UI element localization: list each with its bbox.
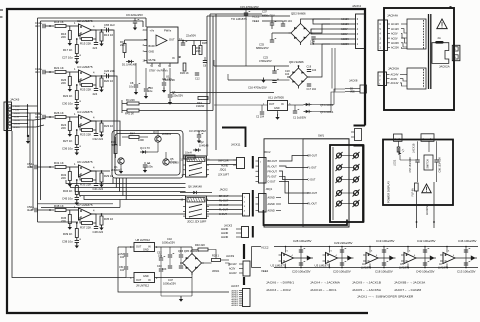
svg-text:IN: IN: [281, 103, 284, 106]
decoupling capacitor C40 100u/25V: [424, 258, 426, 268]
wire input to R14 1K: [45, 25, 54, 27]
svg-text:IN: IN: [148, 279, 151, 282]
wire U1 output: [178, 40, 207, 42]
svg-text:FL-OUT: FL-OUT: [308, 167, 318, 170]
svg-text:R1B: R1B: [202, 42, 207, 45]
svg-text:C47: C47: [168, 278, 173, 282]
wire row5 output to relay JDC2: [110, 213, 186, 215]
vertical bus from power section: [206, 16, 208, 156]
capacitor C34 104: [311, 36, 315, 38]
ground below R36 22K: [69, 224, 71, 227]
IC U1 TDA7296 body: [147, 27, 178, 63]
svg-text:C20 100u/25V: C20 100u/25V: [292, 270, 311, 274]
svg-text:C65 3u3: C65 3u3: [104, 23, 115, 27]
svg-text:R23 10: R23 10: [104, 124, 113, 128]
svg-text:VCC2: VCC2: [252, 15, 260, 19]
svg-text:U4 LM1875: U4 LM1875: [77, 110, 93, 114]
wire jack ground down-left: [12, 131, 126, 278]
relay JDQ1 JZX-18FF: [186, 156, 207, 177]
wires R4 R41 to bus: [139, 103, 210, 105]
svg-text:D1 1N4148: D1 1N4148: [122, 63, 136, 67]
svg-text:SL-IN: SL-IN: [14, 117, 20, 119]
capacitor C45 10u: [76, 195, 78, 198]
wire JACK4A row 6: [388, 47, 391, 49]
svg-text:AC220V: AC220V: [426, 205, 429, 215]
svg-text:C27 10u: C27 10u: [62, 56, 73, 60]
svg-text:J9 LN7912: J9 LN7912: [136, 284, 150, 288]
svg-text:C42 100u/25V: C42 100u/25V: [417, 239, 436, 243]
svg-text:C-OUT: C-OUT: [308, 179, 316, 182]
output resistor R23 10 to ground: [101, 121, 103, 123]
decoupling capacitor C42 100u/25V: [424, 247, 426, 259]
connector JACK2A: [452, 45, 460, 60]
capacitor C12: [195, 72, 199, 74]
svg-text:JR301: JR301: [212, 270, 220, 273]
decoupling capacitor C20 100u25V: [341, 258, 343, 268]
wire JACK4A row 3: [388, 32, 391, 34]
wire input to R21 1K: [45, 71, 54, 73]
buffer op-amp U4 LM1875: [366, 253, 378, 264]
wire second rail top horizontal: [41, 20, 144, 22]
decoupling capacitor C19 100u/25V: [383, 247, 385, 259]
mute block nested shield outline inner: [115, 134, 180, 176]
wire R26 1K to op-amp: [66, 116, 78, 118]
op-amp stage U2 LM1875 input coupling capacitor C61 3u3: [42, 24, 44, 28]
buffer op-amp U2 LM1875: [282, 253, 294, 264]
svg-text:R34 1K: R34 1K: [63, 189, 72, 193]
svg-text:OUT: OUT: [136, 279, 142, 282]
capacitor C23 body: [272, 70, 276, 72]
svg-text:AC24V: AC24V: [229, 272, 237, 275]
JACK6 pin 6 wire: [12, 123, 28, 125]
svg-text:AGND: AGND: [14, 126, 21, 129]
input marks of U4 LM1875: [363, 254, 366, 256]
svg-text:OUT: OUT: [169, 38, 175, 42]
wire VCC2 rail: [262, 15, 290, 17]
svg-text:22K: 22K: [120, 43, 125, 47]
signal wire and arrow after U5 LM1875: [416, 257, 436, 259]
left margin tick marks: [0, 9, 3, 11]
op-amp stage U3 LM1875 input coupling capacitor C62 3u3: [42, 70, 44, 74]
wire bundle left extensions: [66, 180, 113, 184]
capacitor C30 10u: [76, 100, 78, 103]
svg-text:U2 LM1875: U2 LM1875: [271, 264, 286, 268]
signal wire and arrow after U3 LM1875: [338, 257, 354, 259]
svg-text:2N5501: 2N5501: [162, 132, 172, 136]
input marks of U7 LM1875: [440, 254, 443, 256]
svg-text:FR-OUT: FR-OUT: [268, 170, 278, 173]
wire jack bus down to stage 5 input: [31, 120, 33, 210]
svg-text:C17 104: C17 104: [307, 88, 317, 91]
svg-text:JACK10←→JDC1: JACK10←→JDC1: [310, 288, 337, 292]
connector AGND jack right: [259, 194, 267, 213]
svg-text:JACK3←→JDC2: JACK3←→JDC2: [266, 288, 291, 292]
connector JACK3 body: [242, 227, 249, 238]
board edge bar segments mid: [252, 156, 254, 169]
svg-text:220u/25V: 220u/25V: [172, 94, 183, 98]
svg-text:Q4 3.7V: Q4 3.7V: [140, 146, 150, 150]
svg-text:TO LM1875: TO LM1875: [231, 17, 247, 21]
svg-text:R31 1K: R31 1K: [54, 161, 64, 165]
signal wire and arrow after U2 LM1875: [294, 257, 314, 259]
svg-text:JACK2A: JACK2A: [439, 64, 450, 68]
svg-text:R22 1K: R22 1K: [63, 94, 72, 98]
capacitor C17 104: [307, 83, 311, 85]
wire JACK4A row 1: [388, 23, 391, 25]
input marks of U3 LM1875: [323, 254, 326, 256]
svg-text:JACK4A: JACK4A: [387, 14, 398, 18]
svg-text:JACK9←→JACK1B: JACK9←→JACK1B: [352, 281, 381, 285]
svg-text:AGND: AGND: [268, 210, 275, 213]
output wire of U7 LM1875: [92, 213, 111, 215]
output resistor R20 10 to ground: [101, 76, 103, 78]
svg-text:VCC2: VCC2: [261, 245, 269, 249]
capacitor C32 224: [95, 130, 97, 133]
svg-text:IN: IN: [148, 246, 151, 249]
svg-text:R41 1K: R41 1K: [125, 112, 134, 116]
svg-text:10mH: 10mH: [185, 152, 192, 155]
svg-text:R4 22K: R4 22K: [126, 98, 135, 102]
output wire of U4 LM1875: [92, 120, 111, 122]
output resistor R29 10 to ground: [101, 171, 103, 173]
svg-text:104: 104: [120, 269, 125, 272]
wires jack column to speaker switch: [279, 156, 308, 162]
svg-text:AC0V: AC0V: [391, 37, 398, 40]
svg-text:BR-OUT: BR-OUT: [308, 192, 318, 195]
transformer secondary winding lower: [407, 68, 426, 89]
svg-text:C30 10u: C30 10u: [62, 102, 73, 106]
output capacitor C26 22K: [106, 74, 108, 78]
resistor R22 1K to ground: [76, 85, 78, 91]
input marks of U2 LM1875: [279, 254, 282, 256]
op-amp U7 LM1875: [79, 208, 92, 220]
svg-text:22u/50V: 22u/50V: [186, 34, 196, 38]
resistor R26 22K to ground: [68, 77, 71, 86]
resistor R31 1K: [55, 166, 66, 169]
wire input to R26 1K: [45, 116, 54, 118]
svg-text:22K: 22K: [196, 49, 201, 53]
svg-text:1902W: 1902W: [196, 104, 205, 108]
svg-text:1N4148: 1N4148: [199, 144, 209, 148]
transistor Q1 2N5401: [118, 158, 124, 164]
diode Q9 1N4004: [306, 110, 309, 113]
svg-text:R37 22K: R37 22K: [80, 226, 91, 230]
svg-text:C46 100u/25V: C46 100u/25V: [458, 239, 477, 243]
JACK6 pin 7 wire: [12, 126, 28, 128]
wire rail into TDA7294 +Vs: [145, 18, 147, 27]
connector in border notch: [355, 129, 362, 141]
connector JACK4A: [378, 20, 388, 51]
speaker terminals right column: [354, 153, 359, 158]
svg-text:C-2380: C-2380: [170, 161, 179, 165]
wire supplies of U2 LM1875: [285, 247, 287, 253]
svg-text:CE-IN: CE-IN: [14, 120, 20, 122]
relay JDC2 JZX-18FF: [186, 196, 207, 219]
resistor R43 1902W: [198, 97, 208, 100]
capacitor C2 104: [260, 111, 264, 113]
svg-text:R20 10: R20 10: [104, 79, 113, 83]
svg-text:JACK9B←→JACK3A: JACK9B←→JACK3A: [394, 281, 426, 285]
wire AC row 1 to JACK4: [330, 18, 356, 20]
mute block nested shield outline outer: [112, 131, 183, 179]
fuse FUF 6A: [415, 183, 419, 191]
capacitor C7 220u/25V: [168, 94, 172, 96]
svg-text:U3 LM1875: U3 LM1875: [77, 65, 93, 69]
svg-text:FR-OUT: FR-OUT: [219, 204, 229, 207]
ground below R16 22K: [69, 40, 71, 43]
decoupling capacitor C29 220u/25V: [341, 247, 343, 259]
thick board edge bar: [243, 244, 245, 259]
ground below C30 10u: [76, 105, 78, 107]
svg-text:C3 470u/35M: C3 470u/35M: [189, 129, 206, 133]
wire supplies of U5 LM1875: [407, 247, 409, 253]
wire jack bus down to stage 4 input: [30, 113, 33, 167]
svg-text:C15 4700u/25V: C15 4700u/25V: [240, 5, 259, 9]
svg-text:JACK8: JACK8: [349, 79, 358, 83]
feedback resistor R15 22K: [82, 38, 93, 41]
svg-text:AC0V: AC0V: [341, 28, 348, 31]
svg-text:C19 100u/25V: C19 100u/25V: [376, 239, 395, 243]
svg-text:POWER DISPLAY: POWER DISPLAY: [387, 181, 391, 203]
svg-text:OUT: OUT: [269, 103, 275, 106]
resistor R34 1K to ground: [76, 180, 78, 186]
transformer primary winding loop: [432, 43, 449, 64]
svg-text:C2 104: C2 104: [256, 116, 265, 119]
svg-text:R39 1K: R39 1K: [63, 232, 72, 236]
svg-text:GW-CUR: GW-CUR: [218, 159, 229, 162]
svg-text:22K: 22K: [61, 126, 66, 130]
svg-text:GND: GND: [143, 275, 149, 278]
power transformer box border: [384, 8, 454, 110]
svg-text:JDQ1: JDQ1: [266, 187, 273, 191]
svg-text:C37: C37: [262, 10, 267, 14]
svg-text:GND: GND: [143, 249, 149, 252]
resistor R56: [397, 147, 400, 152]
wire bundle lower horizontals to relays: [113, 178, 186, 184]
thick board edge bar upper segment: [222, 128, 246, 148]
capacitor C36 10u: [76, 145, 78, 148]
svg-text:10u: 10u: [148, 89, 153, 93]
capacitor C38 10u: [76, 238, 78, 241]
wire AC row 2 to JACK4: [330, 23, 356, 25]
wire R21 1K to op-amp: [66, 71, 78, 73]
op-amp stage U4 LM1875 input coupling capacitor C36 3u3: [42, 115, 44, 119]
ground below C27 10u: [76, 59, 78, 61]
op-amp U4 LM1875: [79, 115, 92, 127]
svg-text:C1 3u3/50V: C1 3u3/50V: [293, 117, 307, 120]
wire JACK5A row AC14V: [387, 82, 390, 84]
JACK6 pin 1 wire: [12, 105, 28, 107]
svg-text:C20 100u25V: C20 100u25V: [333, 270, 351, 274]
output wire of U6 LM1875: [92, 170, 111, 172]
svg-text:22K: 22K: [61, 81, 66, 85]
svg-text:JACK9: JACK9: [226, 254, 235, 258]
feedback resistor R33 22K: [82, 179, 93, 182]
svg-text:AGND: AGND: [221, 232, 228, 235]
svg-text:C40 100u/25V: C40 100u/25V: [416, 270, 435, 274]
output resistor R13 10 to ground: [101, 30, 103, 32]
wire VCC2 bottom rail: [274, 246, 478, 248]
capacitor C27 10u: [76, 54, 78, 57]
svg-text:R13 10: R13 10: [104, 33, 113, 37]
svg-text:1000u/25V: 1000u/25V: [162, 241, 175, 245]
svg-text:U8 LM7812: U8 LM7812: [136, 238, 151, 242]
wires JACK6 to preamp bus: [28, 105, 38, 107]
svg-text:JACK2: JACK2: [220, 187, 229, 191]
svg-text:C7: C7: [172, 90, 176, 94]
wire AC row 5 to JACK4: [330, 38, 356, 40]
signal wire and arrow after U7 LM1875: [455, 257, 477, 259]
switch SWITCH box: [424, 155, 433, 170]
svg-text:6800u/25V: 6800u/25V: [262, 14, 275, 18]
resistor R45 7K4: [114, 145, 117, 154]
connector JACK5A: [378, 72, 387, 86]
wire input to R31 1K: [37, 166, 54, 168]
resistor R14 1K: [55, 25, 66, 28]
svg-text:C9 220u/25V: C9 220u/25V: [126, 13, 143, 17]
svg-text:JDC2 JZX 18FF: JDC2 JZX 18FF: [187, 220, 207, 224]
svg-text:224: 224: [93, 46, 98, 50]
power display box border: [383, 140, 453, 206]
svg-text:JACK1B: JACK1B: [413, 143, 416, 153]
svg-text:OUT: OUT: [136, 246, 142, 249]
svg-text:AC20V: AC20V: [341, 43, 349, 46]
capacitor C41 224: [95, 180, 97, 183]
svg-text:BR-OUT: BR-OUT: [308, 155, 318, 158]
wire bridge QD2 left: [272, 32, 291, 34]
svg-text:AGND: AGND: [221, 228, 228, 231]
svg-text:C16 4700u/25V: C16 4700u/25V: [248, 86, 267, 90]
resistor R4 22K: [127, 102, 139, 105]
svg-text:JACK4: JACK4: [352, 4, 361, 8]
connector LED jack: [394, 134, 403, 141]
wire AC row verticals: [315, 18, 330, 20]
decoupling capacitor C46 100u/25V: [465, 247, 467, 259]
wire bus top to power supply: [207, 15, 268, 17]
decoupling capacitor C13 100u/25V: [465, 258, 467, 268]
svg-text:C4: C4: [147, 161, 151, 165]
svg-text:AC20V: AC20V: [391, 42, 399, 45]
capacitor C10 10u: [144, 88, 148, 90]
svg-text:FUF 6A: FUF 6A: [412, 188, 415, 197]
svg-text:2A: 2A: [438, 36, 441, 40]
svg-text:RL-OUT: RL-OUT: [268, 165, 278, 168]
ground of JACK6: [27, 135, 29, 137]
capacitor 224: [95, 85, 97, 88]
svg-text:C36 10u: C36 10u: [62, 147, 73, 151]
svg-text:C19: C19: [307, 66, 312, 69]
svg-text:BR-OUT: BR-OUT: [268, 160, 278, 163]
U1 left pin stubs: [144, 29, 147, 31]
U1 bottom pins: [151, 63, 153, 67]
svg-text:JACK5←→JACK5A: JACK5←→JACK5A: [352, 288, 382, 292]
wire supplies of U3 LM1875: [329, 247, 331, 253]
output resistor R35 10 to ground: [101, 214, 103, 216]
svg-text:RL-OUT: RL-OUT: [308, 203, 318, 206]
svg-text:R27 1K: R27 1K: [63, 139, 72, 143]
decoupling capacitor C18 100u25V: [383, 258, 385, 268]
svg-text:R28 1: R28 1: [212, 254, 219, 258]
op-amp U3 LM1875: [79, 70, 92, 82]
wires JACK4A labels to winding: [401, 23, 407, 25]
wire to JACK9: [225, 263, 229, 266]
wires bottom supply: [118, 246, 134, 248]
svg-text:JACK5A: JACK5A: [388, 67, 399, 71]
svg-text:C-OUT: C-OUT: [268, 181, 276, 184]
connector JACK11 body: [237, 158, 245, 169]
ground below C36 10u: [76, 150, 78, 152]
wire rails vertical joins: [213, 60, 215, 66]
JACK6 pin 2 wire: [12, 109, 28, 111]
wire JACK5A row AC24V: [387, 74, 390, 76]
main schematic border frame: [7, 9, 368, 313]
svg-text:R1B 1K: R1B 1K: [180, 72, 189, 75]
buffer op-amp U7 LM1875: [443, 253, 455, 264]
output capacitor C65 3u3: [106, 28, 108, 32]
wire supply feed vertical bottom strip: [251, 247, 253, 268]
svg-text:JZX 18FT: JZX 18FT: [218, 173, 229, 176]
capacitor C49 1000u: [179, 254, 183, 256]
wire AC row 4 to JACK4: [330, 33, 356, 35]
wire R14 1K to op-amp: [66, 25, 78, 27]
svg-text:JACK4←→JACKMA: JACK4←→JACKMA: [310, 281, 341, 285]
svg-text:IN: IN: [172, 57, 175, 60]
svg-text:R15 22K: R15 22K: [80, 42, 91, 46]
svg-text:AC20V: AC20V: [341, 38, 349, 41]
switch box SW1 inner divider: [303, 139, 349, 227]
wire JACK4A row 5: [388, 42, 391, 44]
wires AC220V out of power display: [416, 191, 418, 228]
svg-text:C56 153/400V: C56 153/400V: [439, 157, 442, 173]
svg-text:FL-IN: FL-IN: [14, 110, 20, 112]
transformer secondary winding upper: [407, 19, 426, 49]
transformer core bars: [428, 14, 430, 89]
capacitor C1 3u3/50V: [293, 110, 297, 112]
resistor R47 100K: [129, 136, 139, 139]
svg-text:R21 1K: R21 1K: [54, 66, 64, 70]
svg-text:AC0V: AC0V: [391, 78, 398, 81]
ground below R32 22K: [69, 181, 71, 184]
svg-text:GND: GND: [274, 107, 280, 110]
svg-text:JACK6: JACK6: [10, 98, 20, 102]
ground below C45 10u: [76, 200, 78, 202]
op-amp stage U7 LM1875 input coupling capacitor C50 3u2: [34, 208, 36, 212]
svg-text:SR-IN: SR-IN: [14, 113, 20, 115]
svg-text:10u: 10u: [158, 255, 163, 258]
wire V+ rail top horizontal: [38, 17, 147, 19]
capacitor C52 10u: [159, 257, 163, 259]
svg-text:C45 10u: C45 10u: [62, 197, 73, 201]
svg-text:AGND: AGND: [268, 197, 275, 200]
svg-text:U3 LM1875: U3 LM1875: [315, 264, 330, 268]
wires Q8 Q9 to JACK8: [312, 104, 335, 106]
resistor R11 220K vertical: [193, 41, 195, 46]
wire AC row 6 to JACK4: [330, 43, 356, 45]
svg-text:AC14V: AC14V: [391, 82, 399, 85]
speaker terminals left column: [337, 153, 342, 158]
signal wire and arrow after U4 LM1875: [378, 257, 396, 259]
svg-text:C38 10u: C38 10u: [62, 240, 73, 244]
op-amp symbol inside TDA7296: [156, 35, 167, 46]
svg-text:FR-IN: FR-IN: [14, 106, 20, 108]
terminal row link wires: [342, 155, 353, 157]
svg-text:1000u/25V: 1000u/25V: [163, 282, 176, 286]
wire JACK5A row AC0V: [387, 78, 390, 80]
capacitor C11 104: [162, 82, 166, 84]
wire AC row 3 to JACK4: [330, 28, 356, 30]
resistor R24 22K to ground: [68, 122, 71, 131]
capacitor C19 104: [307, 69, 311, 71]
